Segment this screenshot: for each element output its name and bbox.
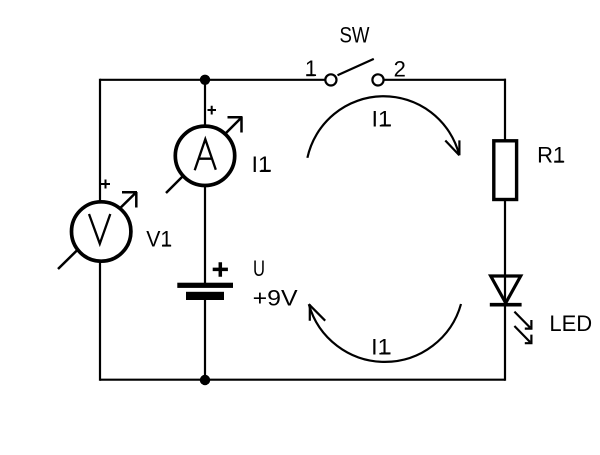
junction bottom node: [200, 375, 210, 385]
switch terminal 1 circle: [325, 74, 336, 85]
svg-text:U: U: [253, 256, 265, 281]
voltmeter V glyph: [89, 214, 110, 244]
svg-text:LED: LED: [549, 311, 592, 336]
current arrow bottom arc: [309, 304, 461, 362]
LED cathode bar: [490, 303, 522, 307]
current arrow bottom arc head: [309, 304, 325, 321]
current arrow top arc head: [445, 140, 459, 155]
svg-text:+9V: +9V: [253, 286, 298, 311]
wire left vertical: [99, 79, 101, 381]
voltmeter arrowhead: [122, 192, 137, 208]
voltmeter V1 arrow shaft: [58, 193, 136, 270]
ammeter body: [175, 126, 234, 185]
voltmeter V1 body: [72, 202, 131, 261]
ammeter arrowhead: [228, 117, 243, 133]
label I1 top serif foot of 1: [381, 124, 391, 126]
svg-text:V1: V1: [146, 227, 172, 252]
junction top node: [200, 75, 210, 85]
ammeter plus sign: [208, 106, 217, 115]
voltmeter plus sign: [101, 180, 110, 189]
wire middle lower (battery bottom plate to junction): [204, 300, 206, 380]
label pin 1 serif foot: [306, 74, 314, 76]
wire right vertical: [504, 79, 506, 381]
battery top plate: [177, 283, 233, 288]
label I1 ammeter serif foot of 1: [261, 170, 271, 172]
switch blade: [338, 59, 374, 75]
ammeter arrow shaft: [166, 119, 241, 194]
svg-text:I1: I1: [252, 152, 272, 177]
svg-text:I1: I1: [371, 334, 391, 359]
switch terminal 2 circle: [372, 74, 383, 85]
wire middle upper (junction to battery top plate): [204, 80, 206, 284]
battery plus sign: [213, 262, 228, 277]
wire top-left segment: [100, 79, 332, 81]
label I1 bottom serif foot of 1: [381, 352, 391, 354]
resistor R1: [494, 141, 517, 200]
wire top-right segment: [378, 79, 506, 81]
ammeter A glyph: [195, 139, 216, 170]
wire bottom horizontal: [100, 379, 505, 381]
label V1 serif foot of 1: [162, 245, 170, 247]
svg-text:R1: R1: [537, 143, 565, 168]
LED triangle: [491, 276, 521, 303]
svg-text:2: 2: [394, 57, 406, 82]
svg-text:SW: SW: [340, 23, 370, 48]
svg-text:I1: I1: [372, 106, 392, 131]
current arrow top arc: [307, 96, 459, 158]
LED light arrow 1: [514, 312, 532, 330]
svg-text:1: 1: [305, 56, 317, 81]
label R1 serif foot of 1: [554, 161, 563, 163]
battery bottom plate: [186, 292, 224, 300]
LED light arrow 2: [514, 326, 532, 344]
